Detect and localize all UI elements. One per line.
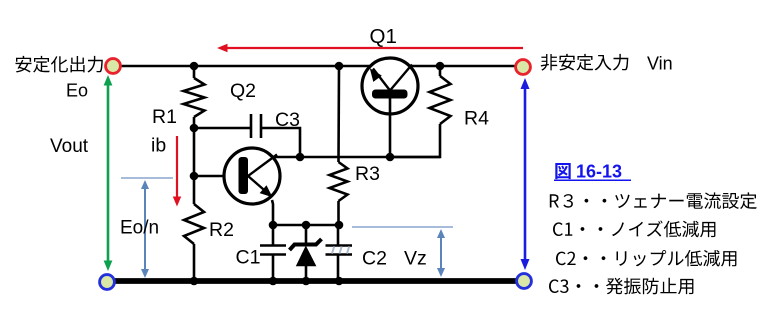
wire junction to C3 (194, 127, 251, 130)
wire to Q2 base (194, 175, 240, 178)
wire top rail (output to input) (121, 65, 516, 68)
svg-text:Q2: Q2 (230, 80, 256, 102)
node Q2 emitter / C1 (269, 221, 278, 230)
wire output rail down to R3 (337, 66, 340, 162)
label 安定化出力 (stabilized output) (16, 56, 103, 73)
svg-text:R3: R3 (355, 163, 380, 185)
node Q1 base junction (386, 153, 395, 162)
resistor R2 (184, 204, 204, 244)
note C1 noise reduction (553, 221, 715, 238)
svg-text:R4: R4 (464, 108, 489, 130)
node R1 top at output rail (190, 62, 199, 71)
node R4 top at input rail (436, 62, 445, 71)
node R1/C3 junction (190, 124, 199, 133)
measure arrow Eo/n (144, 186, 146, 272)
blue arrow Vin (double ended) (524, 87, 527, 261)
node R2 at ground rail (190, 277, 199, 286)
resistor R1 (184, 78, 205, 117)
transistor Q2 (NPN error amplifier) (224, 148, 280, 204)
svg-text:Eo: Eo (66, 81, 88, 101)
svg-text:R2: R2 (209, 219, 234, 241)
svg-text:Vout: Vout (50, 136, 89, 157)
svg-text:C2: C2 (362, 248, 387, 270)
capacitor C3 (250, 114, 253, 138)
wire zener node row (273, 224, 339, 227)
resistor R4 (430, 76, 451, 124)
wire R2 top lead (193, 176, 196, 204)
node R3 top at output rail (335, 62, 344, 71)
node C2 at ground (335, 277, 344, 286)
zener diode D1 (305, 225, 308, 246)
guide line Vz level (352, 226, 453, 228)
wire Q2 emitter down (272, 200, 273, 225)
resistor R3 (330, 162, 348, 201)
svg-text:C1: C1 (236, 247, 261, 269)
terminal input (+) (516, 60, 531, 75)
transistor Q1 (NPN series pass) (362, 58, 418, 114)
node C3/collector junction (296, 153, 305, 162)
capacitor C2 (electrolytic) (337, 225, 340, 245)
red current arrow (through Q1) (226, 47, 523, 49)
figure caption underline (554, 179, 631, 181)
svg-text:Q1: Q1 (370, 25, 397, 48)
node zener top (302, 221, 311, 230)
node zener at ground (302, 277, 311, 286)
terminal input ground (517, 274, 532, 289)
node R3 / C2 (335, 221, 344, 230)
red arrow ib (176, 136, 178, 197)
svg-text:Vin: Vin (647, 53, 673, 73)
svg-text:Eo/n: Eo/n (120, 218, 159, 239)
wire R4 top lead (439, 66, 442, 76)
note C2 ripple reduction (556, 250, 736, 267)
terminal output (+) (106, 59, 121, 74)
svg-text:C3: C3 (275, 109, 300, 131)
label 図 16-13 (figure caption) (555, 163, 570, 179)
label 非安定入力 (unstabilized input) (541, 54, 629, 71)
svg-text:ib: ib (151, 135, 166, 157)
wire ground rail (115, 278, 516, 284)
wire R3 bottom lead (337, 201, 340, 225)
wire R4 bottom to Q1 base node (390, 124, 440, 157)
svg-text:R1: R1 (152, 106, 177, 128)
svg-text:16-13: 16-13 (576, 162, 622, 182)
node Q2 base / R2 junction (190, 172, 199, 181)
guide line Eo/n level (121, 177, 173, 179)
node C1 at ground (269, 277, 278, 286)
wire Q1 base lead (389, 97, 392, 157)
note C3 oscillation prevention (549, 278, 693, 295)
green arrow Vout (double ended) (107, 84, 110, 262)
wire R2 bottom lead (193, 244, 196, 281)
svg-text:Vz: Vz (404, 247, 427, 269)
wire C3 to Q2 collector node (261, 128, 300, 157)
note R3 zener current setting (550, 192, 757, 209)
capacitor C1 (272, 225, 275, 245)
wire R1 top lead (193, 66, 196, 78)
wire R1 bottom lead (193, 117, 196, 128)
measure arrow Vz (440, 235, 442, 271)
wire junction down to base node (193, 128, 196, 176)
wire Q2 collector to Q1 base (horizontal) (275, 156, 440, 159)
terminal output ground (100, 275, 115, 290)
